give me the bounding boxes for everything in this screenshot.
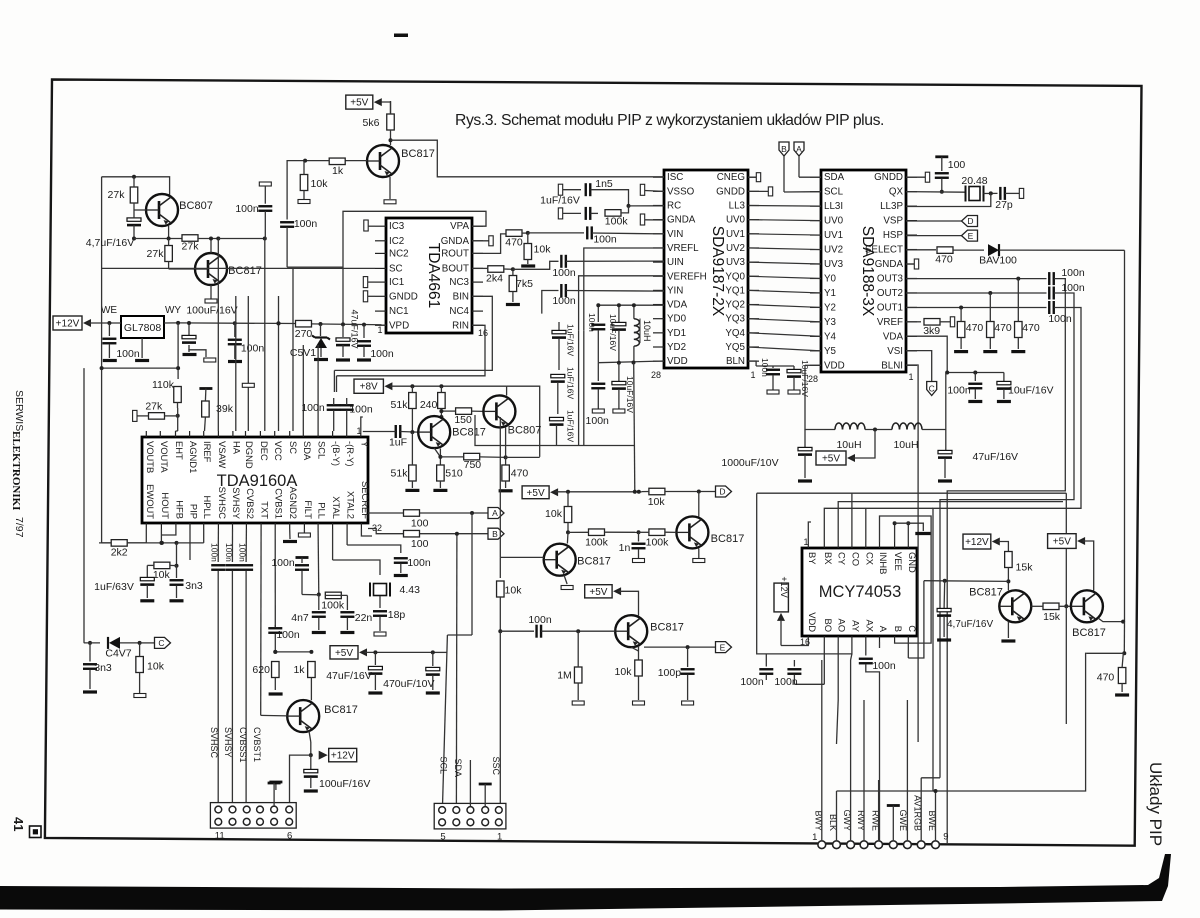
wire select bus right xyxy=(1124,250,1126,621)
wire OUT3 xyxy=(906,277,1047,281)
power +5V rail mid xyxy=(522,486,558,499)
capacitor 10uF/16V BLN xyxy=(773,360,810,397)
svg-text:1000uF/10V: 1000uF/10V xyxy=(721,457,778,469)
svg-text:BLNI: BLNI xyxy=(881,360,903,371)
svg-text:UV1: UV1 xyxy=(726,229,745,240)
svg-text:GNDA: GNDA xyxy=(875,259,904,270)
resistor 7k5 xyxy=(509,269,533,302)
capacitor 10uF/16V cluster1 xyxy=(608,305,626,363)
svg-text:SC: SC xyxy=(288,441,299,454)
svg-text:1: 1 xyxy=(750,370,755,380)
svg-text:SC: SC xyxy=(389,263,403,274)
resistor 620 xyxy=(252,662,279,691)
svg-text:SCL: SCL xyxy=(439,756,449,774)
capacitor 100n WE xyxy=(102,323,139,361)
transistor Q8 BC817 xyxy=(615,615,684,647)
wire SECREF xyxy=(361,529,372,536)
capacitor 100n UIN xyxy=(552,255,664,279)
svg-text:270: 270 xyxy=(295,328,313,340)
wire VDD down to 5V rail xyxy=(634,363,635,492)
svg-text:10uH: 10uH xyxy=(836,439,861,451)
svg-text:BC817: BC817 xyxy=(969,587,1003,599)
ground 51k bottom xyxy=(405,489,419,492)
svg-text:SVHSC: SVHSC xyxy=(209,727,219,759)
wire WE xyxy=(89,321,122,325)
svg-text:CY: CY xyxy=(837,552,848,566)
terminal 10k C4V7 xyxy=(134,694,146,698)
plug IC3 xyxy=(364,220,375,231)
svg-text:B: B xyxy=(781,144,787,154)
ground AGND2 xyxy=(283,529,297,542)
svg-text:CVBS2: CVBS2 xyxy=(245,488,256,519)
svg-text:XTAL: XTAL xyxy=(331,496,342,519)
svg-text:SDA9187-2X: SDA9187-2X xyxy=(709,226,726,317)
label CVBST1 xyxy=(252,727,262,762)
capacitor 1n xyxy=(619,532,646,562)
svg-text:E: E xyxy=(968,231,974,241)
power +5V E xyxy=(585,585,639,616)
svg-text:1k: 1k xyxy=(293,664,305,676)
svg-text:10k: 10k xyxy=(615,666,633,678)
svg-text:AGND2: AGND2 xyxy=(288,487,299,519)
resistor 470 right xyxy=(1097,653,1126,692)
svg-text:SVHSY: SVHSY xyxy=(231,487,242,520)
inductor 10uH b xyxy=(892,423,922,451)
svg-text:AY: AY xyxy=(850,620,861,633)
capacitor 47uF/16V right xyxy=(938,450,1018,481)
wire CX up xyxy=(865,508,867,542)
svg-text:BC807: BC807 xyxy=(179,200,213,212)
title Rys.3 xyxy=(455,112,884,129)
svg-text:BC817: BC817 xyxy=(401,148,435,160)
svg-text:HPLL: HPLL xyxy=(202,496,213,519)
resistor 100 B xyxy=(404,530,429,550)
ground 470 right xyxy=(1115,693,1129,696)
tag A xyxy=(794,142,821,177)
svg-text:10k: 10k xyxy=(648,496,666,508)
ground Q10 xyxy=(1001,639,1015,642)
resistor 100 A xyxy=(404,510,429,530)
svg-text:100uF/16V: 100uF/16V xyxy=(319,778,370,790)
wire BY BX up xyxy=(808,508,933,542)
wire Q2 emitter down xyxy=(210,285,212,299)
plug GNDA 9188 xyxy=(906,259,919,269)
svg-text:10k: 10k xyxy=(153,569,171,581)
svg-text:VDD: VDD xyxy=(667,356,688,367)
svg-text:BAV100: BAV100 xyxy=(979,255,1017,267)
svg-text:9: 9 xyxy=(943,832,948,843)
svg-text:YD0: YD0 xyxy=(667,314,687,325)
svg-text:GNDD: GNDD xyxy=(389,291,418,302)
svg-text:100: 100 xyxy=(948,159,966,171)
capacitor 100uF/16V WY xyxy=(182,305,238,363)
svg-text:CVBSS1: CVBSS1 xyxy=(238,727,248,763)
transistor Q3 BC817 xyxy=(367,145,435,177)
svg-text:BC817: BC817 xyxy=(1072,627,1106,639)
svg-text:6: 6 xyxy=(287,831,292,842)
wire 620-1k node xyxy=(273,650,313,654)
svg-text:27k: 27k xyxy=(108,189,126,201)
transistor Q11 BC817 xyxy=(1071,590,1106,639)
svg-text:VDA: VDA xyxy=(883,331,904,342)
capacitor 100n WY xyxy=(228,323,265,361)
svg-text:100n: 100n xyxy=(552,267,576,279)
svg-text:IC2: IC2 xyxy=(389,236,404,247)
resistor 10k Q8 xyxy=(615,660,645,705)
wire Q2 collector up xyxy=(209,237,213,254)
capacitor 1uF/16V xyxy=(540,195,598,220)
wire +5V bottom rail xyxy=(365,650,448,654)
svg-text:1: 1 xyxy=(908,372,913,382)
svg-text:OUT2: OUT2 xyxy=(877,288,903,299)
svg-text:5: 5 xyxy=(440,832,445,843)
svg-text:51k: 51k xyxy=(391,399,409,411)
svg-text:PLL: PLL xyxy=(317,502,328,519)
svg-text:ROUT: ROUT xyxy=(441,248,469,259)
svg-text:10uF/16V: 10uF/16V xyxy=(1008,385,1054,397)
svg-text:100n: 100n xyxy=(301,402,325,414)
resistor 470 OUT1 xyxy=(957,308,983,350)
svg-text:SDA: SDA xyxy=(453,758,463,777)
svg-text:470: 470 xyxy=(511,468,529,480)
connector J1 pins 11-6 xyxy=(210,803,296,842)
svg-text:100k: 100k xyxy=(646,537,670,549)
label SVHSC xyxy=(209,727,219,759)
wire HA down xyxy=(235,296,237,431)
svg-text:+8V: +8V xyxy=(360,382,378,393)
svg-text:4,7uF/16V: 4,7uF/16V xyxy=(947,619,993,630)
svg-text:470: 470 xyxy=(1022,322,1040,334)
svg-text:27k: 27k xyxy=(147,248,165,260)
svg-text:AO: AO xyxy=(837,618,848,632)
resistor 10k vert xyxy=(545,492,572,535)
IC U6 GL7808 regulator xyxy=(101,305,181,338)
svg-text:YQ3: YQ3 xyxy=(725,314,745,325)
transistor Q10 BC817 xyxy=(969,587,1031,623)
svg-text:+5V: +5V xyxy=(527,488,545,499)
svg-text:YIN: YIN xyxy=(667,285,683,296)
capacitor 470uF/10V xyxy=(383,652,440,693)
svg-text:1uF/16V: 1uF/16V xyxy=(566,410,576,442)
svg-text:BC817: BC817 xyxy=(228,265,262,277)
svg-text:+5V: +5V xyxy=(589,587,607,598)
svg-text:BC817: BC817 xyxy=(452,427,486,439)
svg-text:100: 100 xyxy=(411,518,429,530)
capacitor 1uF/16V b xyxy=(551,367,576,414)
svg-text:VSP: VSP xyxy=(883,216,903,227)
resistor 100k a xyxy=(568,529,641,549)
svg-text:10k: 10k xyxy=(534,244,552,256)
svg-text:SVHSC: SVHSC xyxy=(217,487,228,520)
IC U1 TDA9160A xyxy=(142,426,382,533)
wire E line xyxy=(644,645,716,649)
ground 7k5 xyxy=(506,303,520,306)
wire GWY AY xyxy=(851,654,852,841)
capacitor 1uF/63V xyxy=(94,577,154,600)
svg-text:1: 1 xyxy=(497,832,502,843)
svg-text:D: D xyxy=(719,487,725,497)
svg-text:470: 470 xyxy=(1097,672,1115,684)
page number 41 xyxy=(11,817,26,831)
transistor Q2 BC817 xyxy=(195,253,262,285)
svg-text:4n7: 4n7 xyxy=(291,612,309,624)
transistor Q9 BC817 xyxy=(287,700,358,732)
plug GNDA 9187 xyxy=(640,214,664,225)
svg-text:BC817: BC817 xyxy=(577,556,611,568)
capacitor 3n3 HPLL xyxy=(170,566,203,601)
wire long left vertical 500 xyxy=(499,557,501,578)
wire LL3P xyxy=(906,193,991,206)
wire J2 col3 xyxy=(469,760,471,806)
ground 620 xyxy=(269,692,283,695)
capacitor 10uF/16V cluster2 xyxy=(612,363,635,413)
svg-text:YQ1: YQ1 xyxy=(725,285,745,296)
svg-text:+5V: +5V xyxy=(822,454,840,465)
svg-text:PIP: PIP xyxy=(189,504,200,519)
svg-text:YD1: YD1 xyxy=(667,328,686,339)
wire A down xyxy=(447,513,472,635)
capacitor 100n MCY b xyxy=(774,660,801,688)
svg-text:7k5: 7k5 xyxy=(516,278,533,290)
IC U5 MCY74053 xyxy=(800,537,918,647)
svg-text:11: 11 xyxy=(215,831,225,842)
tag E mid xyxy=(716,642,732,653)
wire A B C pins down xyxy=(880,581,924,658)
svg-text:BC807: BC807 xyxy=(508,425,542,437)
svg-text:VSSO: VSSO xyxy=(667,186,695,197)
wire RWY down xyxy=(863,700,865,841)
svg-text:ELEKTRONIKI: ELEKTRONIKI xyxy=(10,431,22,510)
capacitor 100n -(R-Y) xyxy=(340,398,373,431)
power +12V left xyxy=(53,316,91,330)
plug GNDD xyxy=(363,291,375,302)
svg-text:C4V7: C4V7 xyxy=(105,648,131,660)
capacitor 100n AX xyxy=(859,642,896,841)
wire RIN loop xyxy=(337,325,486,376)
svg-text:OUT1: OUT1 xyxy=(877,302,903,313)
svg-text:Y4: Y4 xyxy=(824,331,837,342)
svg-text:-(R-Y): -(R-Y) xyxy=(345,441,356,467)
svg-text:GND: GND xyxy=(907,552,918,573)
wire base rail y238 xyxy=(134,237,183,241)
svg-text:HSP: HSP xyxy=(883,230,904,241)
wire EWOUT HOUT HFB xyxy=(99,529,176,545)
wire 100n node down to DEC xyxy=(264,239,266,432)
wire VDA 9187 xyxy=(596,303,664,307)
label SVHSY xyxy=(223,727,233,758)
svg-text:BOUT: BOUT xyxy=(442,263,469,274)
svg-text:SCL: SCL xyxy=(824,187,844,198)
transistor Q7 BC817 xyxy=(676,492,744,549)
svg-text:LL3P: LL3P xyxy=(880,201,903,212)
svg-text:QX: QX xyxy=(889,187,904,198)
resistor 470 OUT3 xyxy=(1015,279,1040,349)
svg-text:TXT: TXT xyxy=(260,501,271,519)
page marker square xyxy=(30,826,42,838)
wire VDD 9187 xyxy=(598,361,664,365)
resistor 1k xyxy=(303,158,345,177)
power +5V top xyxy=(346,95,382,109)
svg-text:YQ4: YQ4 xyxy=(725,328,745,339)
svg-text:NC3: NC3 xyxy=(449,277,469,288)
svg-text:1uF/16V: 1uF/16V xyxy=(566,367,576,399)
svg-text:Y0: Y0 xyxy=(824,273,837,284)
capacitor 100n (series left) xyxy=(280,161,317,268)
wire Q7base bus down xyxy=(1064,493,1068,724)
svg-text:1: 1 xyxy=(812,832,817,843)
IC U3 SDA9187-2X xyxy=(651,170,759,380)
wire +5V rail xyxy=(556,490,642,494)
capacitor 4n7 xyxy=(291,595,326,633)
wire UIN link xyxy=(513,261,559,269)
svg-text:SDA: SDA xyxy=(824,172,845,183)
resistor 510 xyxy=(437,465,463,488)
svg-text:CX: CX xyxy=(864,552,875,566)
wire top-left rail xyxy=(102,175,170,195)
wire BOUT to 2k4 xyxy=(472,267,480,269)
svg-text:100n: 100n xyxy=(760,358,770,377)
svg-text:3n3: 3n3 xyxy=(94,662,112,674)
svg-text:LL3I: LL3I xyxy=(824,201,843,212)
inductor 10uH xyxy=(634,305,652,363)
capacitor 1uF xyxy=(363,425,418,449)
svg-text:1M: 1M xyxy=(557,670,572,682)
wire PLL xyxy=(317,529,321,597)
ground 470 OUT2 xyxy=(983,350,997,353)
wire Q9 base xyxy=(261,714,288,717)
svg-text:100n: 100n xyxy=(872,660,896,672)
diode BAV100 xyxy=(979,244,1124,266)
resistor 750 xyxy=(440,453,507,471)
wire 9188 VDD down xyxy=(805,365,835,429)
capacitor 100n FILT xyxy=(298,529,310,537)
wire Q9e left down xyxy=(290,755,311,806)
capacitor 4,7uF/16V right xyxy=(937,581,951,640)
svg-text:47uF/16V: 47uF/16V xyxy=(350,309,360,348)
svg-text:+5V: +5V xyxy=(335,648,353,659)
terminal 10k bottom xyxy=(298,200,310,204)
wire VIN link xyxy=(528,232,584,234)
power +5V right xyxy=(1048,534,1094,591)
svg-text:IC3: IC3 xyxy=(389,221,405,232)
svg-text:GNDD: GNDD xyxy=(874,172,903,183)
wire SDA-SCL down xyxy=(303,345,318,431)
resistor 1M xyxy=(557,631,584,705)
wire OUT1 xyxy=(906,306,1047,310)
capacitor 100n (VPD) xyxy=(357,325,394,360)
wire TXT down xyxy=(260,529,262,715)
wire Q6 collector xyxy=(566,532,569,543)
ground 470 Q5 xyxy=(499,489,513,492)
svg-text:28: 28 xyxy=(651,370,661,380)
svg-text:10k: 10k xyxy=(505,585,523,597)
capacitor 100uF/16V Q9 xyxy=(304,755,371,791)
wire SC long left xyxy=(102,267,375,269)
label SCL xyxy=(439,756,449,774)
resistor 100k b xyxy=(639,529,677,549)
wire outer rect MCY xyxy=(757,493,1067,654)
capacitor 100n PLL top xyxy=(271,557,309,595)
svg-text:NC2: NC2 xyxy=(389,248,409,259)
ground small left xyxy=(269,782,282,790)
capacitor 100n (open top) xyxy=(235,182,272,239)
wire VEREFH lower xyxy=(578,331,580,446)
svg-text:SSC: SSC xyxy=(491,756,501,775)
svg-text:100n: 100n xyxy=(1061,282,1085,294)
wire Q6 emitter xyxy=(561,575,573,590)
border frame xyxy=(45,80,1142,846)
svg-text:470uF/10V: 470uF/10V xyxy=(383,678,434,690)
svg-text:HFB: HFB xyxy=(174,500,185,519)
capacitor 4,7uF/16V xyxy=(86,210,141,249)
crystal 4.43 xyxy=(370,583,420,609)
svg-text:HOUT: HOUT xyxy=(160,492,171,519)
svg-text:100k: 100k xyxy=(585,537,609,549)
crystal 20.48 xyxy=(961,175,997,202)
wire caps bottom rail xyxy=(475,415,635,446)
wire Q5e to +8Vv xyxy=(506,456,540,458)
svg-text:100n: 100n xyxy=(587,313,597,332)
wire INHB rect xyxy=(880,516,932,643)
svg-text:SDA9188-3X: SDA9188-3X xyxy=(859,226,876,317)
svg-text:YQ0: YQ0 xyxy=(725,271,745,282)
connector J3 row xyxy=(812,832,948,849)
wire Y pin1 xyxy=(361,417,363,431)
svg-text:20.48: 20.48 xyxy=(961,175,987,187)
svg-text:100n: 100n xyxy=(116,348,140,360)
resistor 10k C4V7 xyxy=(136,643,165,693)
svg-text:YD2: YD2 xyxy=(667,342,686,353)
resistor 51k top xyxy=(391,386,417,432)
ground MCY xyxy=(915,532,931,535)
svg-text:A: A xyxy=(796,144,802,154)
svg-text:100n: 100n xyxy=(586,415,610,427)
svg-text:100n: 100n xyxy=(349,404,373,416)
svg-text:NC1: NC1 xyxy=(389,306,409,317)
svg-text:470: 470 xyxy=(966,322,984,334)
svg-text:Y3: Y3 xyxy=(824,317,837,328)
svg-text:B: B xyxy=(492,529,498,539)
wire OUT2 xyxy=(906,291,1047,295)
wire VPA loop xyxy=(343,211,486,324)
wire VDA down xyxy=(945,373,947,430)
wire AO down xyxy=(837,642,839,744)
svg-text:100: 100 xyxy=(411,538,429,550)
wire BLN 9187 xyxy=(748,361,756,366)
svg-text:100uF/16V: 100uF/16V xyxy=(186,305,237,317)
svg-text:100n: 100n xyxy=(294,218,318,230)
svg-text:UV2: UV2 xyxy=(824,245,843,256)
svg-text:Y: Y xyxy=(359,441,370,448)
wire BWY down xyxy=(821,660,823,841)
svg-text:FILT: FILT xyxy=(303,500,314,519)
wire Q3 emitter xyxy=(389,177,391,199)
svg-text:100n: 100n xyxy=(235,203,259,215)
resistor 1k Q9 xyxy=(293,662,315,701)
wire Q5 collector up xyxy=(506,386,508,395)
svg-text:100k: 100k xyxy=(605,216,629,228)
tag D (VSP) xyxy=(906,216,978,227)
terminal Q3 emitter xyxy=(384,200,396,204)
resistor 270 xyxy=(295,320,313,340)
svg-text:10k: 10k xyxy=(147,661,165,673)
wire to 100n node xyxy=(218,237,266,241)
svg-text:750: 750 xyxy=(464,459,482,471)
svg-text:EHT: EHT xyxy=(174,441,185,460)
svg-text:CO: CO xyxy=(850,552,861,566)
wire SVHSC line xyxy=(210,529,226,806)
svg-text:2k2: 2k2 xyxy=(111,547,128,559)
